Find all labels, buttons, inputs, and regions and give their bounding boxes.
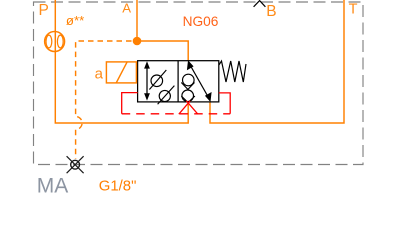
right position: ball seat 1	[181, 74, 194, 89]
right position: ball seat 2	[181, 90, 195, 103]
red plugged port cross	[179, 101, 198, 114]
svg-text:B: B	[266, 3, 276, 20]
left position: double arrow	[144, 61, 150, 100]
solenoid a	[106, 62, 136, 83]
node junction dot on A line	[133, 37, 142, 46]
valve body V1 two-position boxes	[138, 61, 219, 102]
caret mark near B	[254, 1, 266, 7]
measuring point MA symbol	[67, 156, 84, 173]
svg-text:ø**: ø**	[66, 13, 84, 28]
wire P vertical and bottom run to valve port	[55, 0, 188, 123]
red subplate bracket left	[122, 93, 138, 114]
wire dashed measuring line MA (horizontal + vertical with hop)	[76, 41, 132, 159]
left position: orifice 2	[158, 86, 175, 105]
red subplate bracket right	[219, 93, 230, 114]
flow meter FM on P line	[45, 32, 65, 52]
svg-text:MA: MA	[37, 174, 69, 197]
svg-text:P: P	[39, 2, 49, 19]
wire A vertical to junction then to valve top port	[137, 0, 188, 61]
left position: orifice 1	[149, 70, 166, 90]
spring	[219, 61, 246, 82]
svg-text:a: a	[95, 65, 104, 82]
wire T vertical and bottom run from valve port B	[210, 0, 344, 123]
right position: diagonal double arrow	[188, 61, 212, 100]
enclosure dashed border	[34, 2, 364, 165]
svg-text:T: T	[349, 1, 358, 17]
svg-text:NG06: NG06	[183, 14, 219, 29]
svg-text:G1/8": G1/8"	[99, 178, 137, 194]
svg-text:A: A	[122, 1, 131, 16]
red dashed bottom line	[122, 113, 231, 115]
